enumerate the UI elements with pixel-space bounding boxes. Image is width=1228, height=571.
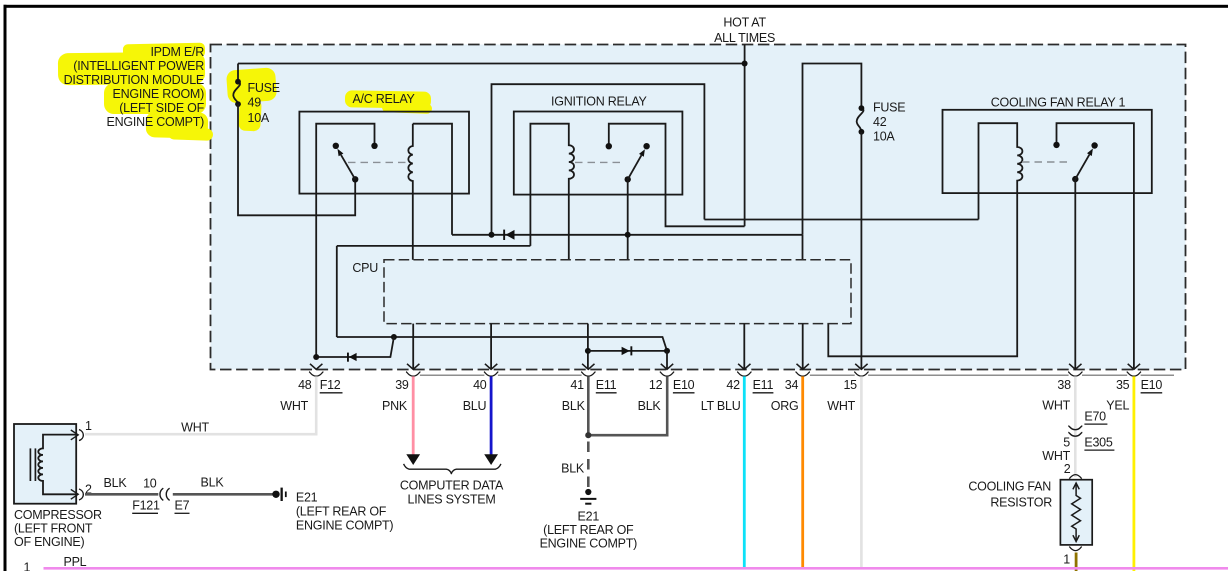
- svg-text:PPL: PPL: [64, 555, 87, 569]
- wire fuse 49 to A/C relay common: [238, 104, 355, 215]
- svg-text:ENGINE COMPT): ENGINE COMPT): [107, 115, 205, 129]
- svg-text:10A: 10A: [248, 111, 270, 125]
- wire cooling fan blade to pin 38: [1074, 179, 1076, 369]
- svg-text:ENGINE COMPT): ENGINE COMPT): [540, 537, 638, 551]
- highlight blob IPDM title line6: [146, 111, 209, 139]
- wire ignition coil return loop: [337, 246, 531, 337]
- svg-text:E70: E70: [1084, 409, 1106, 423]
- wire BLK compressor segment 1: [85, 493, 158, 496]
- brace computer data lines: [404, 464, 501, 474]
- IPDM E/R module box (dashed, light blue): [211, 45, 1186, 370]
- wire pin48 diode branch: [316, 337, 394, 357]
- terminal E21 left label: [296, 491, 394, 533]
- svg-text:LINES SYSTEM: LINES SYSTEM: [408, 492, 496, 506]
- connector cup resistor bottom: [1069, 547, 1081, 551]
- svg-text:(LEFT REAR OF: (LEFT REAR OF: [543, 523, 634, 537]
- node junction pin41: [585, 348, 591, 354]
- cooling fan relay movable blade: [1072, 176, 1078, 182]
- fuse F49 top lead: [237, 64, 239, 82]
- svg-text:E11: E11: [596, 378, 617, 392]
- node junction rail/diode branch: [391, 334, 397, 340]
- svg-text:IPDM E/R: IPDM E/R: [150, 45, 204, 59]
- inline connector F121/E7: [160, 488, 170, 500]
- svg-text:1: 1: [24, 561, 31, 571]
- svg-text:COOLING FAN RELAY 1: COOLING FAN RELAY 1: [991, 95, 1126, 109]
- terminal E21 left: [272, 488, 286, 501]
- highlight blob FUSE 49: [226, 67, 277, 103]
- highlight blob IPDM title lines4-5: [104, 83, 206, 114]
- svg-text:ALL TIMES: ALL TIMES: [714, 31, 775, 45]
- svg-text:ORG: ORG: [771, 399, 799, 413]
- wire rail to cooling fan relay coil: [704, 219, 978, 221]
- A/C relay coil-2 lead to diode line: [413, 124, 452, 235]
- svg-text:(INTELLIGENT POWER: (INTELLIGENT POWER: [73, 59, 204, 73]
- fuse F42 element: [857, 108, 864, 132]
- svg-text:DISTRIBUTION MODULE: DISTRIBUTION MODULE: [64, 73, 204, 87]
- svg-text:E11: E11: [753, 378, 774, 392]
- svg-text:40: 40: [473, 378, 487, 392]
- wire YEL pin35: [1133, 376, 1136, 571]
- svg-text:WHT: WHT: [181, 421, 209, 435]
- compressor pin 2 connector: [71, 489, 84, 500]
- wire BLK dashed to ground: [587, 442, 590, 488]
- IGNITION relay K2 box: [514, 112, 683, 195]
- svg-text:1: 1: [85, 419, 92, 433]
- wire CPU to pin 40: [490, 324, 492, 369]
- connector cap resistor top: [1069, 475, 1081, 479]
- svg-text:COMPUTER DATA: COMPUTER DATA: [400, 478, 504, 492]
- svg-text:FUSE: FUSE: [873, 101, 905, 115]
- svg-text:COMPRESSOR: COMPRESSOR: [14, 508, 102, 522]
- svg-text:E21: E21: [296, 491, 318, 505]
- A/C relay coil: [408, 124, 412, 260]
- svg-text:E10: E10: [1141, 378, 1163, 392]
- svg-text:15: 15: [843, 378, 857, 392]
- svg-text:ENGINE COMPT): ENGINE COMPT): [296, 519, 394, 533]
- ground E21 label: [540, 509, 638, 550]
- wire fuse 42 feed: [803, 64, 862, 235]
- cooling fan resistor box: [1060, 480, 1092, 545]
- highlight blob IPDM title line1: [58, 43, 432, 141]
- connector E70 arcs: [1068, 426, 1082, 436]
- arrow PNK to data lines: [406, 454, 420, 465]
- A/C relay K1 box: [299, 112, 469, 194]
- svg-text:41: 41: [570, 378, 584, 392]
- wire PNK pin39: [412, 376, 415, 455]
- node junction pin12: [664, 348, 670, 354]
- frame left border: [4, 5, 7, 571]
- compressor pin 1 connector: [71, 430, 84, 441]
- svg-text:(LEFT FRONT: (LEFT FRONT: [14, 522, 93, 536]
- wire HOT feed vertical: [744, 45, 746, 227]
- svg-text:2: 2: [1064, 462, 1071, 476]
- svg-text:F12: F12: [320, 378, 341, 392]
- diode D2 on pin48 branch: [347, 353, 349, 362]
- wire fuse 42 to pin 15: [860, 132, 862, 369]
- svg-text:34: 34: [785, 378, 799, 392]
- cooling fan resistor element: [1072, 483, 1081, 542]
- arrow BLU to data lines: [484, 454, 498, 465]
- svg-text:10A: 10A: [873, 130, 895, 144]
- svg-text:A/C RELAY: A/C RELAY: [352, 92, 415, 106]
- IGNITION relay actuation dashed link: [575, 161, 621, 163]
- A/C relay contact dots: [371, 143, 377, 149]
- wire hot rail to fuse 49: [238, 63, 745, 65]
- wire BLK pin41: [587, 376, 590, 435]
- svg-text:39: 39: [395, 378, 409, 392]
- svg-text:E21: E21: [578, 509, 600, 523]
- wire CPU to pin 42: [743, 324, 745, 369]
- wire fuse42 leg to CPU: [802, 235, 804, 260]
- node junction diode line / bridge: [489, 232, 495, 238]
- svg-text:12: 12: [649, 378, 663, 392]
- IPDM pin arrowheads: [310, 364, 1140, 370]
- wire BLK pin12 loop: [588, 376, 667, 435]
- COOLING FAN RESISTOR label: [968, 480, 1052, 510]
- IGNITION relay coil: [530, 124, 574, 260]
- fuse F42 value label: [873, 101, 905, 144]
- wire CPU to pin 34: [802, 324, 804, 369]
- svg-text:LT BLU: LT BLU: [701, 399, 741, 413]
- connector name underlines: [320, 392, 1162, 394]
- svg-text:HOT AT: HOT AT: [723, 16, 766, 30]
- svg-text:IGNITION RELAY: IGNITION RELAY: [551, 95, 648, 109]
- ground E21: [580, 489, 596, 504]
- IGNITION relay switch wiring to HOT: [609, 124, 745, 227]
- svg-text:49: 49: [248, 96, 262, 110]
- svg-text:COOLING FAN: COOLING FAN: [968, 480, 1051, 494]
- connector name labels: [320, 378, 1163, 392]
- COOLING FAN RELAY 1 box: [943, 110, 1152, 193]
- svg-text:10: 10: [143, 477, 157, 491]
- compressor box: [14, 424, 76, 504]
- IPDM label text: [64, 45, 205, 129]
- wire rail above pins to pin12 node: [337, 337, 667, 351]
- connector E70/E305 labels: [1084, 409, 1112, 449]
- CPU box (dashed): [384, 260, 851, 324]
- COMPUTER DATA LINES SYSTEM label: [400, 478, 504, 506]
- node HOT AT ALL TIMES label: [714, 16, 775, 46]
- svg-text:WHT: WHT: [1042, 399, 1070, 413]
- svg-text:WHT: WHT: [1042, 449, 1070, 463]
- svg-text:5: 5: [1063, 435, 1070, 449]
- svg-text:42: 42: [726, 378, 740, 392]
- svg-text:YEL: YEL: [1106, 399, 1129, 413]
- node junction BLK wires: [585, 432, 591, 438]
- compressor coil core lines: [30, 448, 35, 481]
- wire PPL bottom: [44, 567, 1228, 570]
- wire BLK compressor segment 2: [173, 493, 273, 496]
- wire DK YEL below resistor: [1075, 553, 1078, 571]
- IGNITION relay contact dots: [606, 143, 612, 149]
- fuse F49 value label: [248, 81, 280, 125]
- wire ignition blade to CPU: [627, 179, 629, 259]
- frame top border: [4, 5, 1228, 8]
- svg-text:BLK: BLK: [562, 399, 586, 413]
- svg-text:(LEFT REAR OF: (LEFT REAR OF: [296, 505, 387, 519]
- highlight blob IPDM title lines2-3: [58, 52, 205, 86]
- wire ORG pin34: [801, 376, 804, 569]
- wire BLU pin40: [490, 376, 493, 455]
- svg-text:35: 35: [1116, 378, 1130, 392]
- svg-text:E305: E305: [1084, 435, 1112, 449]
- svg-text:F121: F121: [132, 499, 160, 513]
- svg-text:BLK: BLK: [104, 476, 128, 490]
- A/C relay actuation dashed link: [348, 161, 407, 163]
- svg-text:BLU: BLU: [463, 399, 487, 413]
- svg-text:ENGINE ROOM): ENGINE ROOM): [113, 87, 205, 101]
- wire diode branch pin41 to pin12: [588, 350, 667, 352]
- highlight blob A/C RELAY: [345, 90, 431, 108]
- cooling fan relay coil: [828, 123, 1022, 356]
- fuse F49 element: [233, 82, 240, 104]
- wire WHT pin48 to compressor: [85, 376, 316, 434]
- cooling fan relay switch wiring to pin 35: [1057, 123, 1134, 369]
- wire CPU to pin 41: [587, 324, 589, 369]
- svg-text:48: 48: [298, 378, 312, 392]
- diode D3 pin41-pin12: [622, 347, 630, 355]
- A/C relay switch fixed-contact wiring: [316, 124, 374, 357]
- wire LT BLU pin42: [743, 376, 746, 569]
- wire CPU to pin 39: [412, 324, 414, 369]
- diode D1 on diode line: [503, 230, 505, 240]
- wire color labels: [280, 399, 1129, 414]
- wire WHT pin15: [860, 376, 863, 569]
- svg-text:OF ENGINE): OF ENGINE): [14, 535, 85, 549]
- compressor clutch coil: [38, 435, 76, 495]
- COMPRESSOR label: [14, 508, 102, 549]
- svg-text:RESISTOR: RESISTOR: [990, 495, 1052, 509]
- IPDM pin connector cups: [309, 372, 1141, 376]
- svg-text:38: 38: [1057, 378, 1071, 392]
- svg-text:PNK: PNK: [382, 399, 408, 413]
- node junction hot rail: [742, 61, 748, 67]
- svg-text:BLK: BLK: [638, 399, 662, 413]
- node junction pin48 wire: [313, 354, 319, 360]
- svg-text:E10: E10: [673, 378, 695, 392]
- IGNITION relay movable blade: [625, 176, 631, 182]
- svg-text:BLK: BLK: [561, 461, 585, 475]
- svg-text:CPU: CPU: [352, 261, 378, 275]
- connector strip lines: [420, 374, 1174, 376]
- wire WHT pin38 upper: [1074, 376, 1077, 477]
- svg-text:42: 42: [873, 115, 887, 129]
- wire node to pin 12: [666, 351, 668, 369]
- svg-text:BLK: BLK: [201, 475, 225, 489]
- wire diode line: [452, 234, 803, 236]
- pin number labels: [298, 378, 1130, 392]
- cooling fan relay contact dots: [1053, 142, 1059, 148]
- wire bridge over ignition relay: [492, 84, 705, 235]
- svg-text:E7: E7: [175, 499, 190, 513]
- node junction diode line / ignition blade: [625, 232, 631, 238]
- A/C relay movable blade: [352, 176, 358, 182]
- svg-text:WHT: WHT: [827, 399, 855, 413]
- svg-text:(LEFT SIDE OF: (LEFT SIDE OF: [119, 101, 204, 115]
- svg-text:1: 1: [1063, 553, 1070, 567]
- svg-text:FUSE: FUSE: [248, 81, 280, 95]
- cooling fan relay actuation dashed link: [1022, 161, 1069, 163]
- svg-text:WHT: WHT: [280, 399, 308, 413]
